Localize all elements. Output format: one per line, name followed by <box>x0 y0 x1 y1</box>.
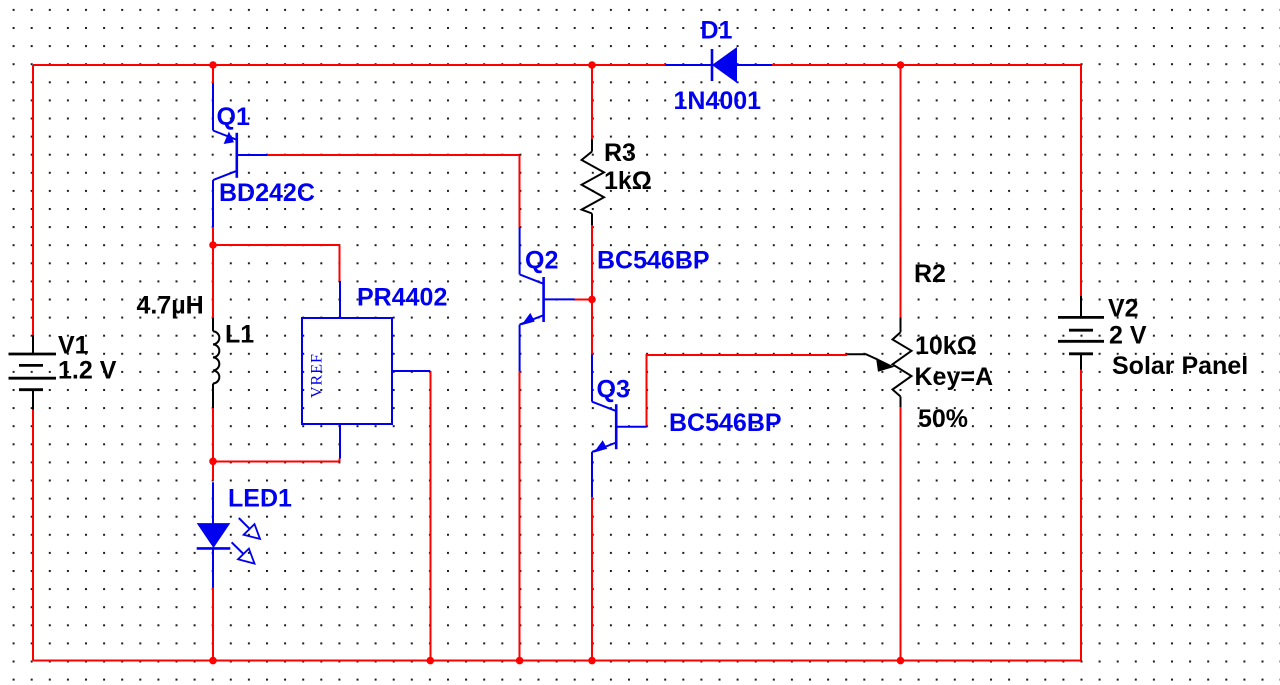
svg-text:4.7µH: 4.7µH <box>137 291 204 319</box>
svg-text:50%: 50% <box>918 405 968 433</box>
svg-text:1.2 V: 1.2 V <box>58 356 117 384</box>
svg-text:LED1: LED1 <box>228 485 292 513</box>
svg-text:R3: R3 <box>604 139 636 167</box>
svg-text:PR4402: PR4402 <box>357 284 447 312</box>
svg-text:1N4001: 1N4001 <box>674 87 762 115</box>
svg-text:VREF: VREF <box>309 353 326 398</box>
svg-text:V2: V2 <box>1108 295 1139 323</box>
svg-text:BC546BP: BC546BP <box>597 247 710 275</box>
svg-text:D1: D1 <box>701 17 733 45</box>
svg-text:L1: L1 <box>225 321 254 349</box>
svg-text:1kΩ: 1kΩ <box>604 167 652 195</box>
svg-text:R2: R2 <box>914 260 946 288</box>
svg-text:Key=A: Key=A <box>915 363 994 391</box>
svg-text:Q3: Q3 <box>597 375 630 403</box>
svg-text:Q1: Q1 <box>217 103 250 131</box>
svg-text:Solar Panel: Solar Panel <box>1112 352 1248 380</box>
svg-text:2 V: 2 V <box>1109 322 1147 350</box>
svg-text:V1: V1 <box>58 332 89 360</box>
svg-text:10kΩ: 10kΩ <box>915 332 977 360</box>
svg-text:BC546BP: BC546BP <box>669 409 782 437</box>
svg-text:BD242C: BD242C <box>219 179 315 207</box>
svg-text:Q2: Q2 <box>525 247 558 275</box>
